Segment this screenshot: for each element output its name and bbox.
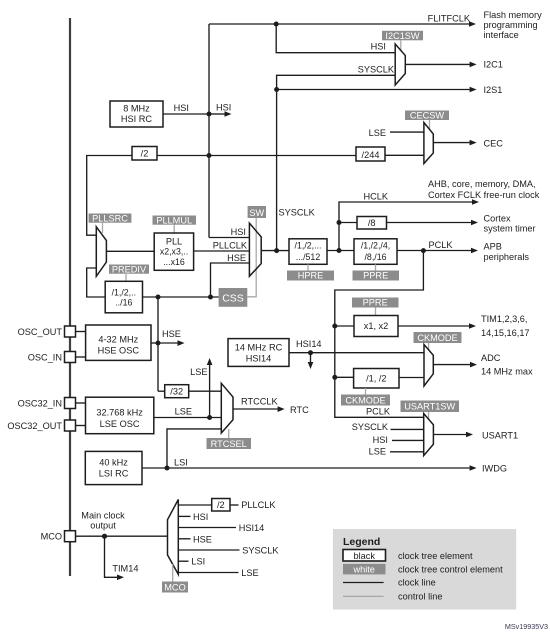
legend control line sample bbox=[343, 592, 442, 602]
control label MCO bbox=[162, 582, 188, 593]
svg-text:Main clock: Main clock bbox=[81, 511, 125, 521]
wire PCLK down to USART1SW bbox=[335, 251, 424, 418]
svg-text:/8,/16: /8,/16 bbox=[364, 252, 386, 262]
svg-text:HSE OSC: HSE OSC bbox=[98, 345, 140, 355]
svg-text:LSI: LSI bbox=[174, 458, 188, 468]
oscillator box LSI RC 40 kHz bbox=[85, 451, 142, 484]
control label HPRE bbox=[287, 271, 334, 281]
svg-text:LSE OSC: LSE OSC bbox=[100, 419, 140, 429]
node LSI junction bbox=[165, 466, 170, 471]
oscillator box HSI14 14 MHz RC bbox=[228, 339, 289, 367]
svg-text:/32: /32 bbox=[170, 387, 183, 397]
wire HSI stub mco bbox=[178, 512, 208, 522]
svg-text:SYSCLK: SYSCLK bbox=[358, 65, 395, 75]
wire HSI continuation arrow bbox=[209, 103, 232, 117]
control line HPRE bbox=[307, 264, 309, 270]
svg-text:../16: ../16 bbox=[115, 298, 132, 308]
control label SW bbox=[248, 206, 266, 218]
wire PCLK to APB bbox=[397, 240, 478, 253]
label AHB core memory bbox=[428, 179, 540, 200]
svg-text:HSE: HSE bbox=[162, 329, 181, 339]
wire HSI top rail to FLITFCLK bbox=[209, 14, 476, 27]
wire HSI14 to ADC mux bbox=[289, 339, 424, 353]
node HCLK junction bbox=[337, 248, 342, 253]
wire /244 to CECSW mux bbox=[385, 154, 424, 156]
wire ADC output bbox=[433, 362, 477, 368]
label cortex system timer bbox=[484, 214, 536, 234]
svg-text:OSC32_IN: OSC32_IN bbox=[18, 399, 62, 409]
svg-text:Cortex FCLK free-run clock: Cortex FCLK free-run clock bbox=[428, 190, 540, 200]
multiplier box x1 x2 bbox=[354, 316, 398, 337]
svg-text:clock line: clock line bbox=[398, 578, 436, 588]
pin OSC32_OUT bbox=[7, 420, 86, 431]
prescaler box PPRE /1,/2,/4,/8,/16 bbox=[354, 239, 397, 264]
pin MCO bbox=[41, 531, 76, 542]
node HSI14 junction bbox=[308, 350, 313, 355]
wire LSI output bbox=[142, 458, 188, 469]
label APB peripherals bbox=[484, 242, 530, 263]
label MSv19935V3 bbox=[505, 622, 548, 631]
mux SW system clock switch bbox=[249, 223, 261, 276]
control label RTCSEL bbox=[207, 438, 252, 449]
mux MCO bbox=[168, 500, 179, 575]
wire HSE to SW mux bbox=[211, 253, 250, 297]
control label CSS bbox=[219, 288, 248, 307]
oscillator box HSI RC 8 MHz bbox=[110, 101, 163, 127]
wire USART1 output bbox=[433, 431, 518, 441]
control line I2C1SW to mux bbox=[400, 40, 402, 50]
svg-text:system timer: system timer bbox=[484, 224, 536, 234]
wire HSE to /32 bbox=[158, 390, 165, 392]
control line CECSW to mux bbox=[429, 120, 431, 130]
svg-text:x2,x3,..: x2,x3,.. bbox=[160, 247, 188, 257]
divider box /2 mco bbox=[212, 499, 230, 512]
svg-text:SYSCLK: SYSCLK bbox=[279, 208, 316, 218]
wire PLLCLK stub label bbox=[230, 500, 276, 510]
wire LSE stub to CECSW bbox=[369, 128, 424, 138]
wire LSE stub to USART1SW bbox=[369, 447, 424, 457]
label ADC 14 MHz max bbox=[481, 353, 533, 377]
node HSE output junction bbox=[156, 341, 161, 346]
control label PPRE bbox=[353, 271, 400, 281]
wire HSI/2 to PLLSRC mux bbox=[87, 156, 132, 236]
control line RTCSEL to mux bbox=[228, 429, 230, 438]
svg-text:LSE: LSE bbox=[369, 447, 386, 457]
wire I2C1 output bbox=[405, 60, 503, 70]
control label PREDIV bbox=[109, 264, 149, 274]
svg-text:/1, /2: /1, /2 bbox=[366, 374, 386, 384]
mux PLLSRC bbox=[96, 227, 106, 276]
svg-text:CECSW: CECSW bbox=[410, 111, 445, 121]
svg-text:CEC: CEC bbox=[484, 139, 504, 149]
svg-text:/1,/2,...: /1,/2,... bbox=[295, 241, 322, 251]
wire SYSCLK stub mco bbox=[178, 546, 279, 556]
svg-text:8 MHz: 8 MHz bbox=[123, 104, 150, 114]
wire MCO output bbox=[76, 535, 168, 537]
svg-text:clock tree element: clock tree element bbox=[398, 551, 473, 561]
node MCO TIM14 junction bbox=[102, 534, 107, 539]
node HSI junction to dividers bbox=[207, 153, 212, 158]
svg-text:PPRE: PPRE bbox=[363, 298, 388, 308]
svg-text:IWDG: IWDG bbox=[482, 464, 507, 474]
svg-text:14,15,16,17: 14,15,16,17 bbox=[481, 328, 530, 338]
svg-text:RTC: RTC bbox=[290, 405, 309, 415]
divider box /1,/2 bbox=[354, 369, 399, 389]
wire PREDIV output to PLLSRC mux bbox=[87, 268, 106, 297]
mux CKMODE ADC bbox=[424, 345, 433, 387]
node SYSCLK I2S1 junction bbox=[274, 87, 279, 92]
svg-text:PLLCLK: PLLCLK bbox=[213, 241, 248, 251]
svg-text:14 MHz max: 14 MHz max bbox=[481, 367, 533, 377]
wire HSI branch to I2C1SW mux bbox=[276, 24, 395, 53]
wire HSE riser bbox=[157, 297, 159, 391]
svg-text:PLLSRC: PLLSRC bbox=[92, 213, 128, 223]
wire HSI14 stub mco bbox=[178, 523, 264, 533]
svg-text:PREDIV: PREDIV bbox=[112, 264, 147, 274]
block PLL multiplier bbox=[154, 233, 193, 270]
wire LSI stub mco bbox=[178, 557, 205, 567]
wire HSI to SW mux bbox=[209, 227, 249, 238]
svg-text:programming: programming bbox=[484, 20, 538, 30]
node PCLK junction bbox=[421, 248, 426, 253]
divider box /244 bbox=[356, 147, 385, 161]
svg-text:OSC_OUT: OSC_OUT bbox=[18, 327, 63, 337]
svg-text:OSC_IN: OSC_IN bbox=[28, 353, 62, 363]
svg-text:AHB, core, memory, DMA,: AHB, core, memory, DMA, bbox=[428, 179, 536, 189]
svg-text:PPRE: PPRE bbox=[363, 271, 388, 281]
node HSE PREDIV junction bbox=[156, 295, 161, 300]
svg-text:x1, x2: x1, x2 bbox=[364, 321, 389, 331]
legend clock tree element sample bbox=[343, 550, 473, 562]
svg-text:USART1: USART1 bbox=[482, 431, 518, 441]
svg-text:black: black bbox=[353, 551, 375, 561]
mux CECSW bbox=[424, 123, 433, 164]
svg-text:TIM1,2,3,6,: TIM1,2,3,6, bbox=[481, 314, 527, 324]
control line PPRE bbox=[375, 264, 377, 270]
wire LSI to RTC mux bbox=[167, 429, 221, 468]
svg-text:HSI14: HSI14 bbox=[296, 339, 322, 349]
wire HSI stub to USART1SW bbox=[373, 435, 424, 445]
svg-text:.../512: .../512 bbox=[296, 252, 321, 262]
wire LSE stub mco bbox=[178, 568, 258, 578]
wire HSI to /244 divider bbox=[209, 155, 356, 157]
svg-text:LSE: LSE bbox=[190, 367, 207, 377]
svg-text:/2: /2 bbox=[141, 149, 149, 159]
mux RTCSEL bbox=[221, 383, 233, 433]
control line PREDIV to box bbox=[125, 274, 127, 281]
wire RTCCLK output bbox=[233, 397, 309, 416]
svg-text:SYSCLK: SYSCLK bbox=[242, 546, 279, 556]
svg-text:USART1SW: USART1SW bbox=[404, 402, 455, 412]
svg-text:white: white bbox=[352, 565, 374, 575]
wire HSE oscillator output bbox=[151, 342, 158, 344]
control label CKMODE adc bbox=[414, 332, 462, 343]
wire PLLSRC output to PLL bbox=[106, 250, 154, 252]
svg-text:/2: /2 bbox=[217, 500, 225, 510]
control line USART1SW to mux bbox=[428, 412, 430, 419]
svg-text:4-32 MHz: 4-32 MHz bbox=[98, 335, 138, 345]
mux I2C1SW bbox=[395, 44, 405, 85]
svg-text:MSv19935V3: MSv19935V3 bbox=[505, 622, 548, 631]
svg-text:PLLMUL: PLLMUL bbox=[156, 215, 192, 225]
wire /32 to RTC mux bbox=[189, 390, 222, 392]
node PCLK to /1,/2 junction bbox=[332, 375, 337, 380]
wire LSI to IWDG bbox=[167, 464, 507, 474]
svg-text:HSI: HSI bbox=[216, 103, 231, 113]
svg-text:I2C1SW: I2C1SW bbox=[385, 31, 420, 41]
control label I2C1SW bbox=[382, 31, 423, 41]
svg-text:I2S1: I2S1 bbox=[484, 85, 503, 95]
wire /1,/2 to ADC mux bbox=[399, 377, 424, 379]
svg-text:/1,/2,/4,: /1,/2,/4, bbox=[361, 241, 390, 251]
label main clock output bbox=[81, 511, 125, 531]
divider box PREDIV /1,/2../16 bbox=[105, 281, 142, 313]
legend clock line sample bbox=[343, 578, 436, 588]
wire SYSCLK stub to USART1SW bbox=[352, 422, 424, 432]
svg-text:CKMODE: CKMODE bbox=[417, 333, 457, 343]
svg-text:HSI14: HSI14 bbox=[239, 523, 265, 533]
svg-text:HSE: HSE bbox=[227, 253, 246, 263]
wire HCLK to /8 bbox=[339, 222, 357, 224]
svg-text:RTCSEL: RTCSEL bbox=[211, 439, 247, 449]
svg-text:peripherals: peripherals bbox=[484, 252, 530, 262]
wire HSE continuation arrow bbox=[158, 329, 185, 346]
svg-text:LSI RC: LSI RC bbox=[99, 469, 129, 479]
node HSI top rail junction bbox=[274, 22, 279, 27]
control label PLLSRC bbox=[89, 213, 132, 223]
pin OSC_IN bbox=[28, 352, 86, 363]
svg-text:HSI RC: HSI RC bbox=[121, 114, 153, 124]
control label CECSW bbox=[405, 111, 449, 121]
label flash memory programming interface bbox=[484, 10, 543, 40]
control label PLLMUL bbox=[153, 215, 197, 225]
control line CKMODE from /1,/2 bbox=[365, 388, 367, 395]
device boundary bus bbox=[69, 18, 71, 576]
svg-text:MCO: MCO bbox=[41, 532, 62, 542]
svg-text:HSI: HSI bbox=[371, 42, 386, 52]
oscillator box HSE OSC 4-32 MHz bbox=[86, 325, 151, 360]
svg-text:HPRE: HPRE bbox=[298, 271, 324, 281]
svg-text:HSI14: HSI14 bbox=[246, 354, 272, 364]
svg-text:PLLCLK: PLLCLK bbox=[241, 500, 276, 510]
wire HCLK to AHB bbox=[339, 192, 479, 251]
wire PCLK to x1x2 bbox=[335, 325, 354, 327]
svg-text:TIM14: TIM14 bbox=[112, 564, 138, 574]
wire LSE continuation arrow up bbox=[190, 358, 212, 418]
wire /8 to cortex system timer bbox=[387, 220, 479, 226]
svg-text:OSC32_OUT: OSC32_OUT bbox=[7, 421, 62, 431]
wire HPRE to PPRE bbox=[327, 250, 354, 252]
svg-text:HSI: HSI bbox=[373, 435, 388, 445]
svg-text:APB: APB bbox=[484, 242, 502, 252]
svg-text:LSE: LSE bbox=[175, 407, 192, 417]
wire CEC output bbox=[433, 139, 503, 149]
node PCLK to x1x2 junction bbox=[332, 324, 337, 329]
wire HSE into PREDIV and CSS bbox=[143, 296, 219, 298]
svg-text:HSE: HSE bbox=[193, 534, 212, 544]
svg-text:32.768 kHz: 32.768 kHz bbox=[96, 408, 143, 418]
pin OSC32_IN bbox=[18, 398, 86, 409]
wire I2S1 bbox=[277, 85, 503, 95]
svg-text:HSI: HSI bbox=[174, 103, 189, 113]
node /8 junction bbox=[337, 220, 342, 225]
svg-text:/1,/2,..: /1,/2,.. bbox=[112, 288, 136, 298]
svg-text:HSI: HSI bbox=[231, 227, 246, 237]
svg-text:Flash memory: Flash memory bbox=[484, 10, 543, 20]
wire HSE stub mco bbox=[178, 534, 212, 544]
wire TIM clock output bbox=[398, 323, 476, 329]
prescaler box HPRE /1,/2.../512 bbox=[289, 239, 327, 264]
svg-text:RTCCLK: RTCCLK bbox=[241, 397, 278, 407]
node HSE to SW junction bbox=[208, 295, 213, 300]
legend panel bbox=[333, 529, 516, 610]
svg-text:HCLK: HCLK bbox=[363, 192, 388, 202]
wire TIM14 branch bbox=[105, 536, 139, 580]
svg-text:HSI: HSI bbox=[193, 512, 208, 522]
divider box /8 bbox=[357, 217, 387, 230]
svg-text:/8: /8 bbox=[368, 218, 376, 228]
svg-text:Cortex: Cortex bbox=[484, 214, 511, 224]
control line SW to mux to CSS bbox=[247, 218, 256, 297]
wire LSE to RTC mux bbox=[154, 407, 221, 418]
wire HSI14 continuation arrow down bbox=[308, 353, 314, 369]
control line PLLMUL to PLL box bbox=[173, 225, 175, 234]
svg-text:clock tree control element: clock tree control element bbox=[398, 565, 503, 575]
control line MCO to mux bbox=[172, 564, 174, 582]
control label CKMODE pclk bbox=[341, 395, 390, 406]
wire SYSCLK riser vertical bbox=[277, 65, 396, 251]
svg-text:I2C1: I2C1 bbox=[484, 60, 503, 70]
node SYSCLK junction at SW output bbox=[274, 248, 279, 253]
svg-text:CKMODE: CKMODE bbox=[345, 396, 385, 406]
node LSE junction bbox=[207, 415, 212, 420]
svg-text:output: output bbox=[90, 521, 116, 531]
svg-text:PLL: PLL bbox=[166, 236, 182, 246]
svg-text:LSE: LSE bbox=[369, 128, 386, 138]
label SYSCLK at riser bbox=[279, 208, 316, 218]
svg-text:MCO: MCO bbox=[164, 583, 185, 593]
svg-text:CSS: CSS bbox=[222, 293, 244, 305]
label TIM1,2,3,6 bbox=[481, 314, 530, 338]
wire PLLCLK to MCO /2 bbox=[178, 504, 211, 506]
svg-text:...x16: ...x16 bbox=[163, 257, 185, 267]
wire HSI riser vertical bbox=[208, 24, 210, 238]
svg-text:Legend: Legend bbox=[343, 536, 380, 548]
svg-text:FLITFCLK: FLITFCLK bbox=[428, 14, 471, 24]
svg-text:14 MHz RC: 14 MHz RC bbox=[235, 343, 283, 353]
svg-text:LSE: LSE bbox=[241, 568, 258, 578]
control line CKMODE to mux bbox=[428, 343, 430, 350]
wire HSI to /2 divider bbox=[157, 155, 209, 157]
legend clock tree control element sample bbox=[343, 564, 503, 575]
svg-text:control line: control line bbox=[398, 592, 442, 602]
control line PPRE to x1x2 bbox=[375, 308, 377, 316]
svg-text:PCLK: PCLK bbox=[429, 240, 454, 250]
svg-text:SYSCLK: SYSCLK bbox=[352, 422, 389, 432]
wire PCLK to /1,/2 bbox=[335, 376, 354, 378]
svg-text:PCLK: PCLK bbox=[366, 407, 391, 417]
divider box /32 bbox=[165, 385, 189, 398]
mux USART1SW bbox=[424, 414, 434, 456]
wire HSI RC output bbox=[163, 103, 209, 114]
pin OSC_OUT bbox=[18, 326, 86, 337]
control line PLLSRC to mux bbox=[102, 223, 104, 234]
svg-text:interface: interface bbox=[484, 30, 519, 40]
svg-text:LSI: LSI bbox=[191, 557, 205, 567]
svg-text:SW: SW bbox=[249, 208, 264, 218]
divider box /2 bbox=[132, 147, 157, 161]
node HSI junction at RC output bbox=[207, 112, 212, 117]
wire SW output to HPRE bbox=[261, 250, 289, 252]
svg-text:40 kHz: 40 kHz bbox=[99, 458, 128, 468]
svg-text:ADC: ADC bbox=[481, 353, 501, 363]
wire PLLCLK to SW mux bbox=[194, 241, 250, 252]
oscillator box LSE OSC 32.768 kHz bbox=[86, 397, 154, 434]
svg-text:/244: /244 bbox=[362, 150, 380, 160]
control label USART1SW bbox=[401, 401, 460, 413]
control label PPRE timers bbox=[352, 298, 399, 308]
